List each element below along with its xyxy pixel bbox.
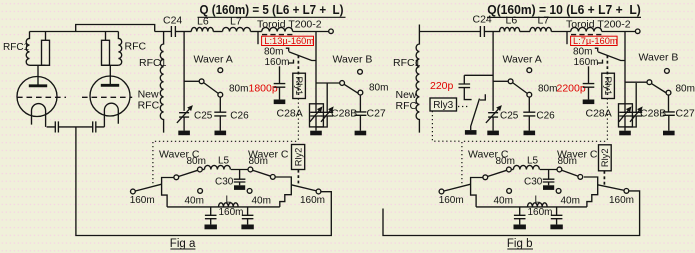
wire L7-toroid (fig a) [251,31,262,33]
svg-text:C26: C26 [230,111,249,122]
wire choke1 bottom bar [30,65,46,84]
switch 160m input contact (fig a) [131,189,136,194]
svg-text:160m: 160m [265,57,290,68]
svg-text:C30: C30 [524,176,543,187]
switch pole left (fig b) [483,175,488,180]
ground C30 (fig b) [548,182,550,185]
inductor L5 (fig a) [204,165,230,169]
switch Waver A 80m contact (fig b) [527,92,532,97]
switch 80m right contact (fig a) [248,167,253,172]
switch Waver A pole (fig a) [199,79,204,84]
svg-text:Rly2: Rly2 [600,148,610,167]
tube V2 cathode [104,103,118,127]
switch tap lever (fig a) [289,52,316,61]
linkage Rly2 dotted (fig b) [603,171,605,187]
wire return to 160m switch (fig a) [76,127,331,236]
capacitor cathode bypass 2 [93,121,96,132]
switch 80m left contact (fig b) [507,167,512,172]
linkage Rly1 dotted (fig b) [606,99,608,141]
ground LPF right (fig b) [556,223,558,225]
wire input to C24 (fig a) [155,31,171,33]
ground C28 (fig b) [624,127,626,131]
svg-text:Q (160m) = 5 (L6 + L7 + L): Q (160m) = 5 (L6 + L7 + L) [200,2,344,17]
switch pole right lever (fig a) [253,170,271,176]
svg-text:80m: 80m [538,83,557,94]
label box L:7u-160m (fig b) [571,36,618,45]
ground C28 (fig a) [315,127,317,131]
wire toroid to output (fig b) [602,31,636,33]
resistor R (RFC1 suppressor, fig a) [45,32,47,41]
switch 160m output lever (fig a) [291,185,316,191]
svg-text:Toroid T200-2: Toroid T200-2 [257,18,322,30]
wire tap 160m (fig a) [289,60,294,63]
wire Waver A leg (fig b) [492,32,494,111]
capacitor LPF right (fig b) [556,207,558,215]
svg-text:RFC: RFC [396,100,418,112]
wire LPF rail (fig a) [167,206,280,208]
inductor L7 (fig a) [223,27,251,31]
svg-text:Waver A: Waver A [503,54,542,66]
wire input stub (fig b) [418,25,420,32]
linkage Rly3 dotted path (fig b) [432,111,462,141]
wire cathode net [47,126,105,128]
svg-text:160m: 160m [574,57,599,68]
capacitor 2200p (fig b) [588,66,590,83]
switch Waver B pole (fig b) [647,80,652,85]
svg-text:L5: L5 [218,156,230,167]
svg-text:80m: 80m [369,83,388,94]
switch 160m input lever (fig a) [135,184,162,191]
terminal output (fig a) [329,29,334,34]
inductor RFC1/New RFC (fig b) [416,32,419,133]
wire output bracket (fig b) [584,177,598,207]
switch tap lever (fig b) [598,52,625,61]
capacitor C26 (fig a) [219,97,221,112]
relay Rly2 (fig a) [292,145,305,170]
svg-text:C28B: C28B [331,107,357,119]
wire C24 to L6 (fig a) [176,31,192,33]
capacitor C25 variable (fig b) [488,113,498,117]
switch 160m output contact (fig b) [624,189,629,194]
switch pole left lever (fig a) [179,170,198,176]
relay Rly2 (fig b) [599,145,612,171]
wire input bracket (fig b) [471,178,484,207]
switch Waver B nc contact (fig a) [358,69,363,74]
inductor L 160m (fig a) [219,203,239,207]
svg-text:40m: 40m [561,196,580,207]
wire L6-L7 (fig a) [213,31,222,33]
svg-text:C27: C27 [367,107,386,119]
wire output bracket (fig a) [275,177,291,207]
switch pole right (fig a) [270,175,275,180]
switch Waver B 80m contact (fig a) [358,90,363,95]
wire main vertical (fig a) [315,32,317,104]
inductor L6 (fig a) [191,27,213,31]
switch 80m left contact (fig a) [198,167,203,172]
capacitor C30 (fig b) [548,170,550,180]
linkage Rly1 dotted (fig a) [297,99,299,141]
switch Waver A lever (fig a) [203,83,218,94]
ground LPF right (fig a) [247,223,249,225]
switch Waver A pole (fig b) [508,79,513,84]
ground C30 (fig a) [239,182,241,185]
tube V1 grid [17,96,66,98]
switch 160m input contact (fig b) [439,189,444,194]
wire L5 to 80m right (fig b) [540,169,557,171]
switch Rly3 contact bracket (fig b) [480,94,485,100]
dotted waver frame (fig a) [153,141,299,183]
ground C25 (fig a) [183,130,185,132]
svg-text:C27: C27 [676,107,695,119]
ground LPF left (fig a) [210,223,212,225]
svg-text:C26: C26 [536,111,555,122]
wire plate jog (fig a) [76,25,155,32]
switch 80m right contact (fig b) [557,167,562,172]
capacitor C30 (fig a) [239,170,241,180]
svg-text:L:13µ-160m: L:13µ-160m [264,36,314,46]
tube V2 plate [101,84,119,87]
wire 80m to L5 (fig a) [202,169,204,171]
ground 1800p (fig a) [279,98,281,100]
svg-text:Fig a: Fig a [170,238,196,250]
wire Waver A leg (fig a) [183,32,185,111]
svg-text:80m: 80m [229,83,248,94]
wire C24 to L6 (fig b) [485,31,501,33]
capacitor C26 (fig b) [528,97,530,112]
wire L5 to 80m right (fig a) [231,169,248,171]
capacitor 1800p (fig a) [279,66,281,83]
relay Rly1 (fig b) [602,73,615,98]
svg-text:160m: 160m [528,207,553,218]
svg-text:Waver A: Waver A [194,54,233,66]
svg-text:80m: 80m [187,156,206,167]
switch 40m right contact (fig a) [247,189,252,194]
ground C26 (fig b) [528,130,530,132]
switch Waver B nc contact (fig b) [665,69,670,74]
capacitor LPF left (fig a) [210,207,212,215]
svg-text:80m: 80m [676,83,695,94]
svg-text:L:7µ-160m: L:7µ-160m [573,36,618,46]
switch 40m left contact (fig a) [198,189,203,194]
tube V1 plate [29,84,47,87]
ground LPF left (fig b) [519,223,521,225]
wire L6-L7 (fig b) [520,31,530,33]
switch 160m output contact (fig a) [316,189,321,194]
svg-text:160m: 160m [300,195,325,206]
switch Waver A nc contact (fig b) [527,68,532,73]
switch pole left lever (fig b) [488,170,507,176]
switch 160m input lever (fig b) [444,184,471,191]
tube V2 grid [82,96,132,98]
wire to Waver A pole (fig a) [184,80,199,82]
svg-text:C30: C30 [215,176,234,187]
switch Waver B pole (fig a) [340,81,345,86]
inductor toroid T200-2 (fig a) [262,27,293,31]
switch Waver A lever (fig b) [512,83,527,94]
switch Waver A 80m contact (fig a) [218,92,223,97]
linkage Rly2 dotted (fig a) [297,170,299,186]
svg-text:160m: 160m [609,195,634,206]
switch Waver B 80m contact (fig b) [666,90,671,95]
svg-text:C28B: C28B [640,107,666,119]
capacitor C28B variable (fig b) [635,83,637,112]
svg-text:L: L [535,194,541,205]
svg-text:40m: 40m [494,196,513,207]
ground C26 (fig a) [219,130,221,132]
switch 40m left contact (fig b) [507,189,512,194]
inductor RFC (parasitic choke 2, fig a) [118,32,121,66]
wire to Waver A pole (fig b) [493,80,508,82]
capacitor LPF left (fig b) [519,207,521,215]
svg-text:Rly1: Rly1 [603,77,613,96]
switch Waver B lever (fig a) [344,84,359,93]
svg-text:Fig b: Fig b [507,238,533,250]
linkage Rly1 (fig a) [297,55,299,95]
svg-text:RFC1: RFC1 [139,57,167,69]
capacitor C27 (fig b) [668,95,670,112]
svg-text:L5: L5 [527,156,539,167]
wire B+ bus (fig a) [30,31,119,33]
svg-text:Rly2: Rly2 [293,148,303,167]
wire tap 80m (fig a) [286,48,289,51]
svg-text:160m: 160m [130,195,155,206]
wire choke2 bottom bar [102,65,119,84]
wire leader to L box (fig b) [566,32,568,45]
capacitor C24 (fig b) [480,26,484,37]
ground C27 (fig a) [359,130,361,132]
svg-text:C25: C25 [500,111,519,122]
capacitor 220p (fig b) [459,84,471,88]
svg-text:80m: 80m [558,156,577,167]
switch pole left (fig a) [174,175,179,180]
wire L7-toroid (fig b) [551,31,570,33]
tube V2 envelope [90,76,130,116]
svg-text:Waver B: Waver B [639,51,679,63]
capacitor C27 (fig a) [359,95,361,112]
svg-text:RFC: RFC [138,100,160,112]
svg-text:L: L [226,194,232,205]
svg-text:160m: 160m [439,195,464,206]
svg-text:RFC: RFC [125,40,147,52]
svg-text:C28A: C28A [586,107,612,119]
switch Rly3 arm (fig b) [471,99,480,130]
inductor toroid T200-2 (fig b) [571,27,602,31]
wire return (fig b) [383,191,640,236]
switch 40m right contact (fig b) [556,189,561,194]
wire LPF rail (fig b) [476,206,587,208]
linkage Rly1 (fig b) [606,55,608,95]
terminal output (fig b) [635,29,640,34]
svg-text:80m: 80m [249,156,268,167]
inductor L7 (fig b) [530,27,551,31]
svg-text:C24: C24 [163,15,182,27]
wire 220p branch (fig b) [464,75,493,84]
tube V1 cathode [32,104,46,127]
svg-text:2200p: 2200p [557,82,586,94]
capacitor C24 (fig a) [171,26,175,37]
svg-text:40m: 40m [185,196,204,207]
wire to Waver B pole (fig a) [316,82,340,84]
resistor R (RFC suppressor, fig a) [105,32,107,41]
svg-text:Waver B: Waver B [333,54,373,66]
svg-text:Toroid T200-2: Toroid T200-2 [566,18,631,30]
svg-text:Rly1: Rly1 [294,77,304,96]
inductor RFC1 (parasitic choke, fig a) [26,32,29,66]
ground 2200p (fig b) [588,98,590,100]
svg-text:Q(160m) = 10 (L6 + L7 + L): Q(160m) = 10 (L6 + L7 + L) [487,2,641,17]
switch Waver A nc contact (fig a) [218,68,223,73]
switch Waver B lever (fig b) [651,83,666,93]
wire to Waver B pole (fig b) [625,81,647,83]
switch 160m output lever (fig b) [598,185,625,191]
inductor L5 (fig b) [513,165,539,169]
wire main vertical (fig b) [624,32,626,104]
relay Rly3 (fig b) [430,98,457,111]
svg-text:RFC1: RFC1 [3,42,30,53]
capacitor C28A variable boxed (fig b) [619,104,633,127]
inductor L 160m (fig b) [528,203,548,207]
capacitor LPF right (fig a) [247,207,249,215]
wire input bracket (fig a) [162,178,175,207]
inductor RFC1/New RFC (fig a) [160,32,163,133]
ground C25 (fig b) [492,130,494,132]
switch pole right lever (fig b) [562,170,579,176]
capacitor C25 variable (fig a) [179,113,189,117]
relay Rly1 (fig a) [293,73,306,98]
inductor L6 (fig b) [500,27,520,31]
svg-text:1800p: 1800p [249,82,278,94]
wire leader to L box (fig a) [257,32,259,45]
svg-text:80m: 80m [496,156,515,167]
wire 80m to L5 (fig b) [511,169,513,171]
wire tap 80m (fig b) [595,48,598,51]
ground Rly3 branch (fig b) [470,129,472,131]
svg-text:Rly3: Rly3 [433,100,453,111]
dotted waver frame (fig b) [462,141,608,183]
tube V1 envelope [17,77,57,117]
capacitor C28A variable boxed (fig a) [310,104,324,127]
wire toroid to output (fig a) [293,31,329,33]
svg-text:RFC1: RFC1 [393,57,421,69]
svg-text:C25: C25 [194,111,213,122]
ground C27 (fig b) [668,130,670,132]
linkage Rly3 dotted h (fig b) [458,106,470,108]
switch pole right (fig b) [578,175,583,180]
svg-text:C28A: C28A [277,107,303,119]
capacitor cathode bypass 1 [55,121,58,132]
svg-text:160m: 160m [219,207,244,218]
wire input to C24 (fig b) [419,31,480,33]
wire tap 160m (fig b) [598,60,603,63]
svg-text:220p: 220p [430,80,454,92]
capacitor C28B variable (fig a) [326,83,328,112]
label box L:13u-160m (fig a) [262,36,314,45]
svg-text:40m: 40m [252,196,271,207]
